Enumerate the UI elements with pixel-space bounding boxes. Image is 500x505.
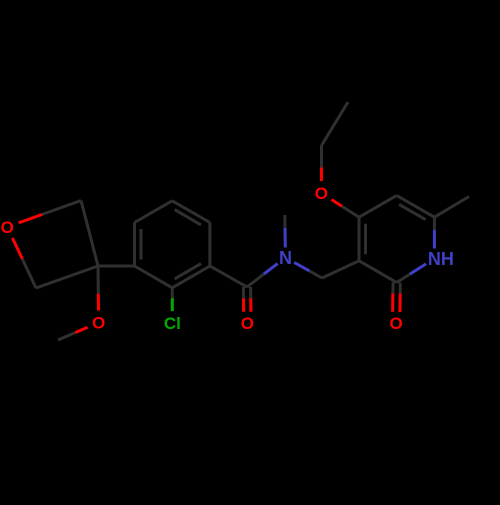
benzene edge C1=C2 (double): [172, 201, 210, 225]
benzene edge C6-C1: [135, 201, 173, 223]
svg-text:O: O: [315, 184, 328, 203]
amide C-N bond: [247, 264, 278, 287]
bond ethoxy O - CH2: [320, 146, 323, 182]
pyridone C2=O double bond: [393, 282, 401, 312]
pyridone bond N1-C2: [397, 264, 426, 283]
svg-text:NH: NH: [428, 249, 454, 269]
pyridone bond C4-C5: [359, 196, 397, 218]
oxetane ring bond C2-C3: [81, 201, 98, 267]
bond oxetane C3 - benzene C5: [98, 265, 135, 268]
svg-text:O: O: [241, 314, 254, 333]
svg-text:O: O: [1, 218, 14, 237]
bond benzene C3 - amide C: [210, 266, 247, 287]
oxetane ring bond C4-C3: [36, 266, 98, 288]
bond CH2 - pyridone C3: [322, 261, 359, 278]
bond pyridone C4 - ethoxy O: [332, 200, 360, 218]
oxetane ring bond O1-C2: [19, 201, 81, 223]
pyridone C3=C4 (double): [359, 217, 366, 261]
bond amide N - methyl: [283, 215, 287, 248]
bond ethoxy CH2 - CH3: [322, 102, 349, 146]
benzene edge C3=C4 (double): [172, 264, 210, 288]
amide C=O double bond: [243, 287, 251, 312]
bond methoxy O - CH3: [58, 327, 88, 340]
pyridone bond C2-C3: [359, 261, 397, 283]
svg-text:N: N: [279, 248, 292, 268]
bond pyridone C6 - methyl: [434, 197, 469, 218]
bond amide N - CH2: [294, 262, 322, 278]
svg-text:O: O: [389, 314, 402, 333]
pyridone bond C6-N1: [433, 217, 436, 248]
svg-text:O: O: [92, 314, 105, 333]
benzene edge C5=C6 (double): [135, 223, 142, 267]
pyridone C5=C6 (double): [397, 196, 435, 220]
oxetane ring bond O1-C4: [12, 238, 36, 288]
benzene edge C4-C5: [135, 266, 173, 288]
svg-text:Cl: Cl: [164, 314, 181, 333]
bond benzene C4 - Cl: [171, 288, 174, 311]
benzene edge C2-C3: [208, 223, 211, 267]
bond oxetane C3 - methoxy O: [97, 266, 101, 311]
